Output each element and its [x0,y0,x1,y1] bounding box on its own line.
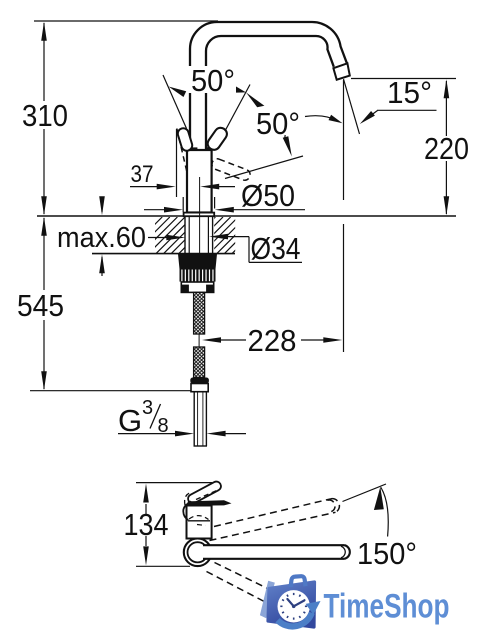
node: logo swoosh arrow [278,613,312,627]
node: lever cap bar (black) [187,500,231,506]
svg-text:15°: 15° [387,75,432,110]
node: swivel joint ring [184,539,212,567]
svg-text:545: 545 [17,288,64,323]
node: base plate [184,213,215,217]
wire: spout tip projection line (vertical) [343,80,345,200]
wire: hose-end reference line [30,390,196,392]
wire: faucet centre line [199,177,201,253]
node: dimension 310 (height above counter) [22,22,68,216]
svg-text:37: 37 [131,161,154,188]
node: dimension 37 (lever offset) [130,129,235,197]
node: flexible braided hose (lower segment) [194,347,205,378]
node: dimension max.60 (counter thickness) [57,196,185,276]
node: dimension 134 (body height, lower view) [124,483,213,567]
node: dimension 545 (counter to hose end) [17,217,64,390]
node: hose end fitting [190,378,209,392]
node: left escutcheon curve [183,503,188,520]
svg-text:50°: 50° [256,106,300,141]
node: thread label G3/8 [118,397,246,438]
node: faucet spout tube outline [190,22,347,152]
node: faucet body [187,150,212,213]
node: dimension 228 (reach) [202,323,342,358]
node: faucet body (lower view) [187,506,212,539]
node: lever handle (lower view) [185,480,223,505]
node: mounting bracket [181,282,213,292]
node: lever handle (lowered position, dashed) [210,157,251,181]
svg-text:50°: 50° [191,63,235,98]
node: dimension 220 (tip height above counter) [424,79,469,215]
node: logo clock face [278,590,310,622]
node: mounting nut (black) [178,254,217,269]
svg-text:TimeShop: TimeShop [324,588,450,626]
node: lever handle (left/up position) [176,127,193,152]
svg-text:Ø34: Ø34 [251,231,301,266]
svg-text:134: 134 [124,507,169,542]
node: flexible braided hose (upper segment) [194,292,205,334]
node: dimension D34 (mounting hole) [209,231,302,266]
wire: dashed hidden edge of left lever [177,129,187,172]
node: riser joint ticks [191,147,197,150]
node: spout tube (lower view) [203,545,350,559]
wire: spout tip extension line (horizontal) [351,78,456,80]
wire: hose break line [198,334,200,347]
svg-text:G: G [118,403,142,438]
wire: top extension line (spout top reference) [34,20,218,22]
node: dimension D50 (base plate diameter) [144,178,305,213]
wire: dashed spout rotated up [210,499,340,541]
wire: counter top surface line [37,215,456,217]
node: angle dimension 50 deg (lever swing, lower) [225,106,343,179]
node: angle dimension 50 deg (lever swing, upper) [163,63,264,131]
node: logo shopping bag [268,582,315,627]
svg-text:3: 3 [142,397,153,419]
node: logo clock hands [287,599,304,606]
node: angle dimension 15 deg (spout tip) [344,75,437,134]
node: spout tip aerator cap [333,63,349,79]
node: supply pipe [194,392,208,446]
node: counter hatching [102,217,268,254]
wire: base plate extension lines [182,197,184,212]
node: logo bag handle [291,576,306,587]
node: logo back flap [260,581,275,619]
node: mounting shank [185,217,213,254]
svg-text:220: 220 [424,131,469,166]
svg-text:228: 228 [248,323,297,358]
wire: counter bottom line [92,253,235,255]
svg-text:Ø50: Ø50 [241,178,295,213]
node: angle dimension 150 deg (swivel range) [343,484,418,571]
svg-text:150°: 150° [357,536,417,571]
svg-text:max.60: max.60 [57,222,146,254]
svg-text:310: 310 [22,98,68,133]
node: logo clock ticks [280,593,307,620]
node: lever handle (right position) [205,125,229,152]
wire: dashed spout rotated down [207,563,285,606]
